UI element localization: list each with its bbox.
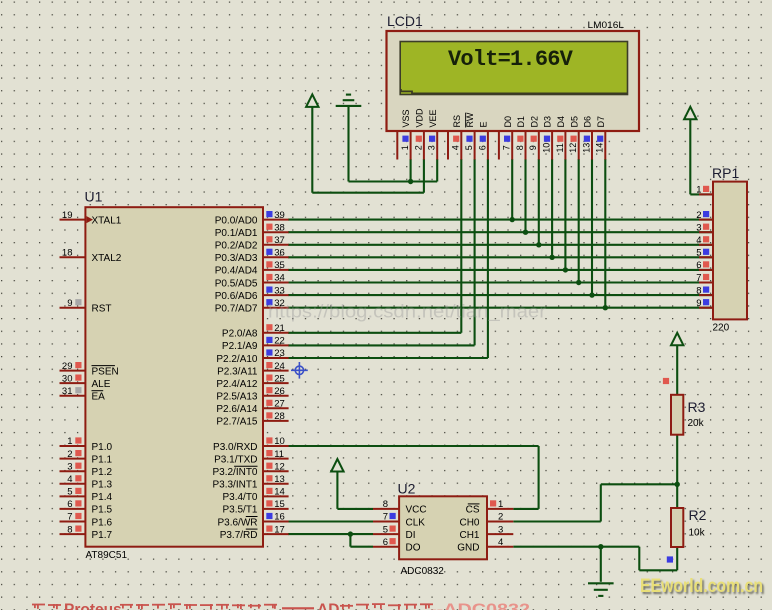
svg-text:P0.1/AD1: P0.1/AD1 xyxy=(215,228,258,239)
svg-text:33: 33 xyxy=(274,285,285,296)
svg-text:36: 36 xyxy=(274,248,285,259)
svg-text:GND: GND xyxy=(457,543,479,554)
svg-text:10: 10 xyxy=(542,143,552,153)
svg-text:5: 5 xyxy=(464,145,474,150)
svg-text:7: 7 xyxy=(696,273,701,284)
svg-text:RP1: RP1 xyxy=(712,165,739,181)
svg-text:AT89C51: AT89C51 xyxy=(86,550,128,561)
svg-text:24: 24 xyxy=(274,361,285,372)
svg-text:U1: U1 xyxy=(85,189,103,205)
svg-text:8: 8 xyxy=(515,145,525,150)
svg-text:8: 8 xyxy=(696,285,701,296)
svg-text:P1.4: P1.4 xyxy=(92,492,113,503)
svg-text:10: 10 xyxy=(274,436,285,447)
svg-text:7: 7 xyxy=(383,512,388,523)
svg-text:18: 18 xyxy=(62,248,73,259)
svg-text:1: 1 xyxy=(67,436,72,447)
svg-text:--ADC0832: --ADC0832 xyxy=(430,602,530,610)
svg-text:D0: D0 xyxy=(503,116,513,128)
svg-text:30: 30 xyxy=(62,373,73,384)
svg-text:13: 13 xyxy=(274,474,285,485)
svg-text:39: 39 xyxy=(274,210,285,221)
svg-text:P1.3: P1.3 xyxy=(92,480,113,491)
svg-text:EEworld.com.cn: EEworld.com.cn xyxy=(640,576,763,597)
svg-text:26: 26 xyxy=(274,386,285,397)
svg-text:P1.7: P1.7 xyxy=(92,530,113,541)
svg-text:R3: R3 xyxy=(688,399,706,415)
svg-text:D3: D3 xyxy=(543,116,553,128)
svg-text:4: 4 xyxy=(498,537,503,548)
svg-text:2: 2 xyxy=(498,512,503,523)
svg-text:PSEN: PSEN xyxy=(92,366,119,377)
svg-text:2: 2 xyxy=(696,210,701,221)
svg-text:10k: 10k xyxy=(689,528,706,539)
svg-text:2: 2 xyxy=(413,145,423,150)
svg-text:D2: D2 xyxy=(529,116,539,128)
svg-text:P2.1/A9: P2.1/A9 xyxy=(222,341,258,352)
svg-text:P3.0/RXD: P3.0/RXD xyxy=(213,442,257,453)
svg-text:220: 220 xyxy=(713,323,730,334)
svg-text:34: 34 xyxy=(274,273,285,284)
svg-text:LCD1: LCD1 xyxy=(387,13,423,29)
svg-text:VEE: VEE xyxy=(428,109,438,127)
svg-text:AD: AD xyxy=(317,602,339,610)
svg-text:27: 27 xyxy=(274,399,285,410)
svg-text:P0.6/AD6: P0.6/AD6 xyxy=(215,291,258,302)
svg-text:D1: D1 xyxy=(516,116,526,128)
svg-text:Proteus: Proteus xyxy=(64,602,122,610)
svg-text:6: 6 xyxy=(477,145,487,150)
svg-text:12: 12 xyxy=(274,461,285,472)
svg-text:P0.2/AD2: P0.2/AD2 xyxy=(215,241,258,252)
svg-text:19: 19 xyxy=(62,210,73,221)
svg-text:P0.5/AD5: P0.5/AD5 xyxy=(215,278,258,289)
svg-text:14: 14 xyxy=(274,487,285,498)
svg-text:35: 35 xyxy=(274,260,285,271)
svg-text:3: 3 xyxy=(427,145,437,150)
svg-text:E: E xyxy=(479,121,489,127)
svg-text:D5: D5 xyxy=(569,116,579,128)
svg-text:RST: RST xyxy=(92,304,112,315)
svg-text:D4: D4 xyxy=(556,116,566,128)
svg-text:12: 12 xyxy=(568,143,578,153)
svg-text:LM016L: LM016L xyxy=(588,20,625,31)
svg-text:3: 3 xyxy=(696,222,701,233)
svg-text:VDD: VDD xyxy=(415,108,425,128)
svg-text:5: 5 xyxy=(67,487,72,498)
svg-text:XTAL1: XTAL1 xyxy=(92,215,122,226)
svg-text:CS: CS xyxy=(466,505,480,516)
svg-text:ALE: ALE xyxy=(92,379,111,390)
svg-text:P3.5/T1: P3.5/T1 xyxy=(222,505,257,516)
svg-text:P3.1/TXD: P3.1/TXD xyxy=(214,454,257,465)
svg-text:P2.6/A14: P2.6/A14 xyxy=(216,404,258,415)
svg-text:VSS: VSS xyxy=(401,109,411,127)
svg-text:14: 14 xyxy=(595,143,605,153)
svg-text:28: 28 xyxy=(274,411,285,422)
svg-text:P2.5/A13: P2.5/A13 xyxy=(216,392,258,403)
svg-text:VCC: VCC xyxy=(406,505,427,516)
svg-text:ADC0832: ADC0832 xyxy=(401,566,445,577)
svg-text:P2.3/A11: P2.3/A11 xyxy=(217,366,258,377)
svg-text:P3.3/INT1: P3.3/INT1 xyxy=(212,480,257,491)
svg-text:XTAL2: XTAL2 xyxy=(92,253,122,264)
svg-text:16: 16 xyxy=(274,512,285,523)
svg-text:21: 21 xyxy=(274,323,285,334)
svg-text:1: 1 xyxy=(498,499,503,510)
svg-text:CH1: CH1 xyxy=(459,530,479,541)
svg-text:20k: 20k xyxy=(688,418,705,429)
svg-text:CLK: CLK xyxy=(406,517,426,528)
svg-text:2: 2 xyxy=(67,449,72,460)
svg-text:P3.2/INT0: P3.2/INT0 xyxy=(212,467,257,478)
svg-text:D7: D7 xyxy=(596,116,606,128)
svg-text:RS: RS xyxy=(452,115,462,128)
svg-text:P2.4/A12: P2.4/A12 xyxy=(216,379,258,390)
svg-text:P2.2/A10: P2.2/A10 xyxy=(216,354,258,365)
svg-text:P1.6: P1.6 xyxy=(92,517,113,528)
svg-text:3: 3 xyxy=(67,461,72,472)
svg-text:EA: EA xyxy=(92,392,106,403)
svg-text:P1.2: P1.2 xyxy=(92,467,113,478)
svg-text:Volt=1.66V: Volt=1.66V xyxy=(448,47,574,72)
svg-text:4: 4 xyxy=(451,145,461,150)
svg-text:D6: D6 xyxy=(583,116,593,128)
svg-text:8: 8 xyxy=(67,524,72,535)
svg-text:P3.7/RD: P3.7/RD xyxy=(220,530,258,541)
svg-text:RW: RW xyxy=(465,112,475,127)
svg-text:31: 31 xyxy=(62,386,73,397)
svg-text:https://blog.csdn.net/tian_mae: https://blog.csdn.net/tian_maer xyxy=(268,301,546,323)
svg-text:P2.0/A8: P2.0/A8 xyxy=(222,329,258,340)
svg-text:23: 23 xyxy=(274,348,285,359)
svg-text:9: 9 xyxy=(67,298,72,309)
svg-text:P3.6/WR: P3.6/WR xyxy=(217,517,257,528)
svg-text:13: 13 xyxy=(581,143,591,153)
svg-text:R2: R2 xyxy=(689,507,707,523)
svg-text:1: 1 xyxy=(400,145,410,150)
svg-text:U2: U2 xyxy=(398,481,416,497)
svg-text:11: 11 xyxy=(555,143,565,152)
svg-text:P0.3/AD3: P0.3/AD3 xyxy=(215,253,258,264)
svg-text:38: 38 xyxy=(274,222,285,233)
svg-text:4: 4 xyxy=(67,474,72,485)
svg-text:P0.0/AD0: P0.0/AD0 xyxy=(215,215,258,226)
svg-text:DO: DO xyxy=(406,543,421,554)
svg-text:P3.4/T0: P3.4/T0 xyxy=(222,492,257,503)
svg-text:DI: DI xyxy=(406,530,416,541)
svg-text:11: 11 xyxy=(274,449,284,460)
svg-text:5: 5 xyxy=(383,524,388,535)
svg-text:5: 5 xyxy=(696,248,701,259)
svg-text:15: 15 xyxy=(274,499,285,510)
svg-text:37: 37 xyxy=(274,235,285,246)
svg-text:9: 9 xyxy=(528,145,538,150)
svg-text:9: 9 xyxy=(696,298,701,309)
svg-text:P0.4/AD4: P0.4/AD4 xyxy=(215,266,258,277)
svg-text:7: 7 xyxy=(502,145,512,150)
svg-text:29: 29 xyxy=(62,361,73,372)
svg-text:6: 6 xyxy=(696,260,701,271)
svg-text:4: 4 xyxy=(696,235,701,246)
svg-text:7: 7 xyxy=(67,512,72,523)
svg-text:1: 1 xyxy=(696,185,701,196)
svg-text:CH0: CH0 xyxy=(459,517,479,528)
svg-text:6: 6 xyxy=(383,537,388,548)
svg-text:P0.7/AD7: P0.7/AD7 xyxy=(215,304,258,315)
svg-text:P1.0: P1.0 xyxy=(92,442,113,453)
svg-text:17: 17 xyxy=(274,524,285,535)
svg-text:P1.1: P1.1 xyxy=(92,454,113,465)
svg-text:6: 6 xyxy=(67,499,72,510)
svg-text:P2.7/A15: P2.7/A15 xyxy=(216,417,258,428)
svg-text:8: 8 xyxy=(383,499,388,510)
svg-text:3: 3 xyxy=(498,524,503,535)
svg-text:25: 25 xyxy=(274,373,285,384)
svg-text:22: 22 xyxy=(274,336,285,347)
svg-text:P1.5: P1.5 xyxy=(92,505,113,516)
